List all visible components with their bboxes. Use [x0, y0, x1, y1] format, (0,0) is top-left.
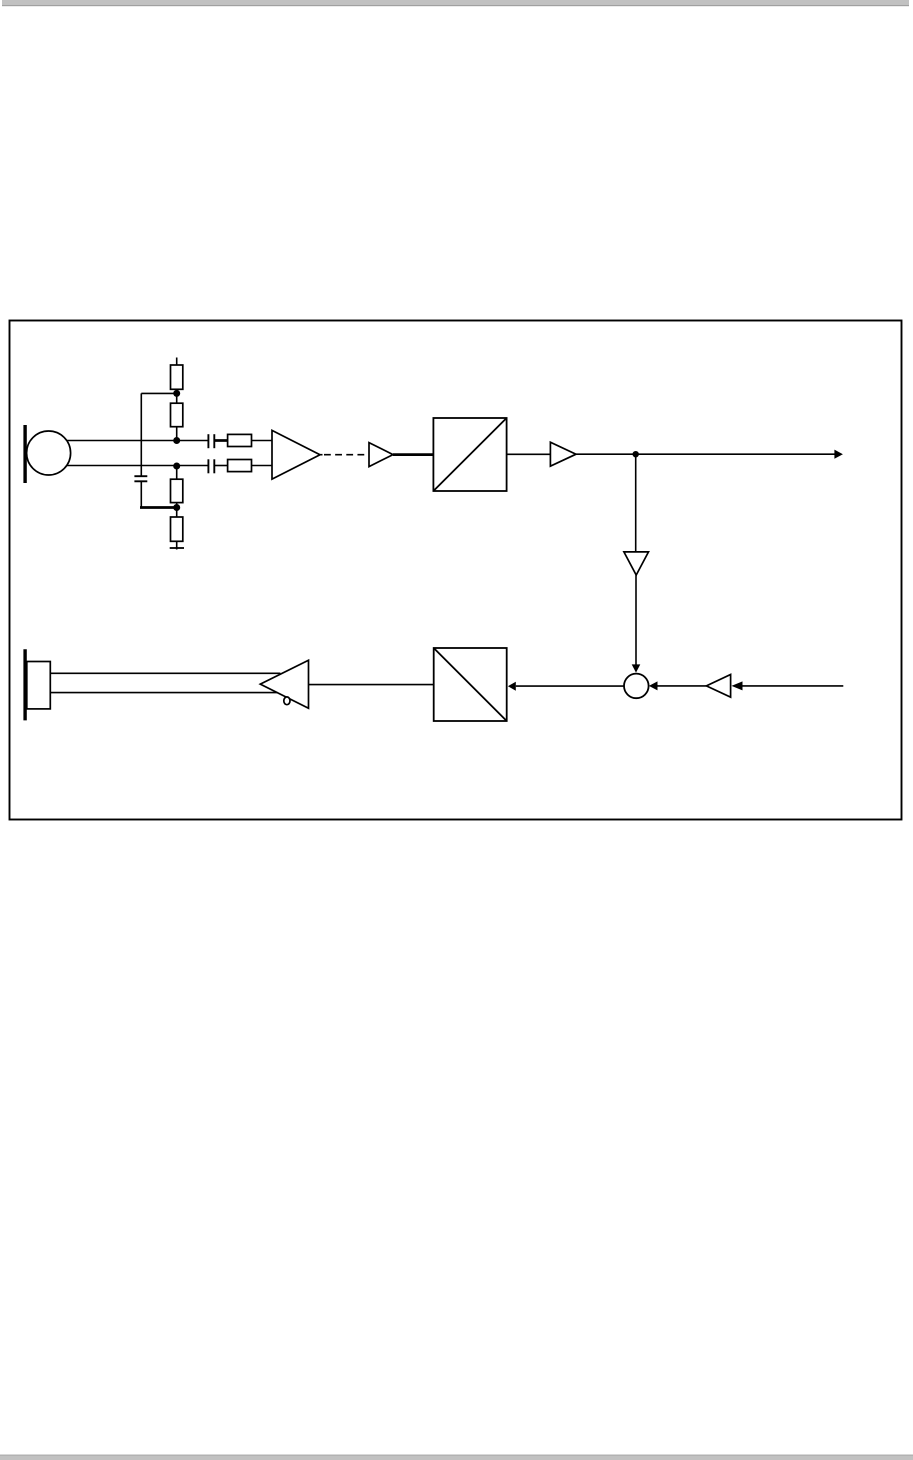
wire earpiece top	[50, 672, 280, 674]
arrowhead into U7	[508, 682, 516, 691]
resistor R6	[228, 460, 252, 472]
wire U6 to S1	[658, 685, 707, 687]
resistor R5	[228, 434, 252, 446]
ADC U3	[433, 418, 506, 491]
node E	[633, 451, 639, 457]
wire R3 to R4	[176, 503, 178, 517]
wire R4 to ground	[176, 541, 178, 549]
wire U2 to U3	[393, 453, 433, 456]
arrowhead output	[834, 450, 843, 459]
resistor R4	[171, 517, 183, 541]
wire R6 to U1	[252, 465, 273, 467]
wire node C to R3	[176, 466, 178, 480]
wire R5 to U1	[252, 440, 273, 442]
wire C2 to R5	[214, 439, 227, 442]
wire S1 to U7	[516, 685, 624, 687]
wire C3 to R6	[214, 465, 227, 467]
ground	[170, 547, 184, 549]
arrowhead into U6	[732, 681, 743, 690]
wire earpiece bottom	[50, 692, 277, 694]
capacitor C2	[208, 434, 214, 448]
wire R1 to R2	[176, 389, 178, 403]
node C	[173, 463, 180, 470]
microphone MIC1	[25, 425, 71, 483]
capacitor C3	[208, 459, 214, 473]
resistor R3	[171, 479, 183, 502]
op-amp U1	[272, 430, 320, 479]
wire mic top	[67, 440, 209, 442]
buffer U4	[550, 442, 576, 466]
wire dashed	[320, 454, 369, 456]
wire mic bottom	[67, 465, 209, 467]
wire U4 to output	[576, 453, 835, 455]
inverter U8	[260, 660, 308, 708]
wire bold to node D	[140, 506, 177, 509]
buffer U2	[369, 443, 393, 467]
buffer U5	[624, 552, 649, 575]
node A	[173, 390, 180, 397]
wire node A branch	[141, 392, 176, 394]
arrowhead into S1 right	[649, 681, 658, 690]
wire R2 to node B	[176, 427, 178, 441]
wire U3 to U4	[507, 453, 551, 455]
node D	[173, 504, 180, 511]
resistor R2	[171, 403, 183, 427]
capacitor C1	[134, 476, 147, 481]
speaker SP1	[25, 649, 50, 720]
node B	[173, 437, 180, 444]
summing node S1	[624, 674, 649, 699]
wire supply stub	[176, 358, 178, 366]
resistor R1	[171, 365, 183, 389]
wire sidetone input	[743, 685, 844, 687]
wire node E down	[635, 454, 637, 552]
wire U7 to U8	[309, 684, 434, 686]
buffer U6	[706, 675, 730, 698]
wire C1 to bold run	[140, 481, 142, 507]
arrowhead into S1	[632, 664, 641, 672]
wire branch down	[140, 393, 142, 476]
wire U5 to S1	[635, 575, 637, 665]
DAC U7	[434, 648, 507, 721]
